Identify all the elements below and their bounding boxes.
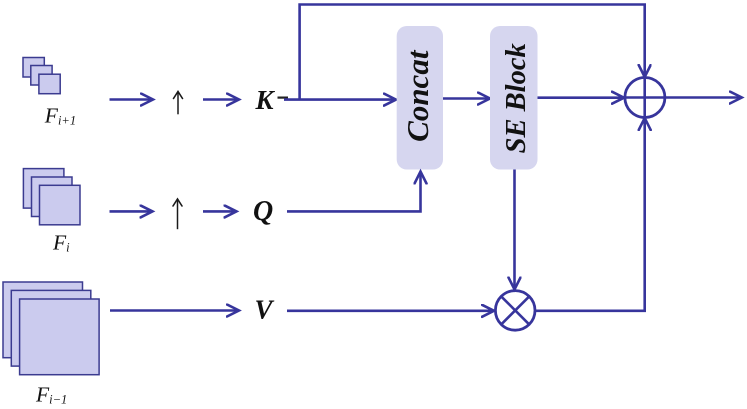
svg-text:K: K bbox=[255, 85, 276, 115]
arrow F_{i-1} to V bbox=[110, 309, 238, 312]
output arrow bbox=[665, 96, 741, 99]
wire V to multiply node bbox=[287, 309, 493, 312]
svg-text:Q: Q bbox=[253, 196, 273, 227]
wire SE Block to multiply node bbox=[513, 170, 516, 289]
arrow upsample to Q bbox=[203, 210, 236, 213]
Concat block bbox=[397, 26, 443, 170]
feature stack F_{i+1} bbox=[23, 58, 60, 94]
arrow upsample to K bbox=[203, 98, 238, 101]
arrow F_i to upsample bbox=[110, 210, 152, 213]
svg-text:SE Block: SE Block bbox=[501, 43, 532, 154]
wire K to Concat bbox=[284, 98, 395, 101]
feature stack F_i bbox=[23, 169, 80, 225]
wire SE Block to add node bbox=[538, 96, 624, 99]
dash after K bbox=[278, 96, 289, 98]
add node circle bbox=[625, 78, 665, 118]
multiply node X diagonal 1 bbox=[501, 296, 529, 324]
skip wire K to add node bbox=[300, 5, 645, 100]
wire Q to Concat bbox=[287, 173, 421, 212]
upsample arrow row 2 bbox=[177, 200, 179, 230]
wire Concat to SE Block bbox=[443, 97, 489, 100]
svg-text:V: V bbox=[255, 295, 275, 325]
arrow F_{i+1} to upsample bbox=[110, 98, 153, 101]
upsample arrow row 1 bbox=[177, 92, 179, 114]
add node plus horizontal bbox=[625, 96, 665, 99]
multiply node X diagonal 2 bbox=[501, 296, 529, 324]
multiply node circle bbox=[495, 291, 535, 331]
add node plus vertical bbox=[643, 78, 646, 118]
svg-text:Concat: Concat bbox=[400, 49, 435, 142]
SE Block bbox=[490, 26, 538, 170]
wire multiply node to add node bbox=[535, 119, 645, 311]
feature stack F_{i-1} bbox=[3, 282, 99, 375]
